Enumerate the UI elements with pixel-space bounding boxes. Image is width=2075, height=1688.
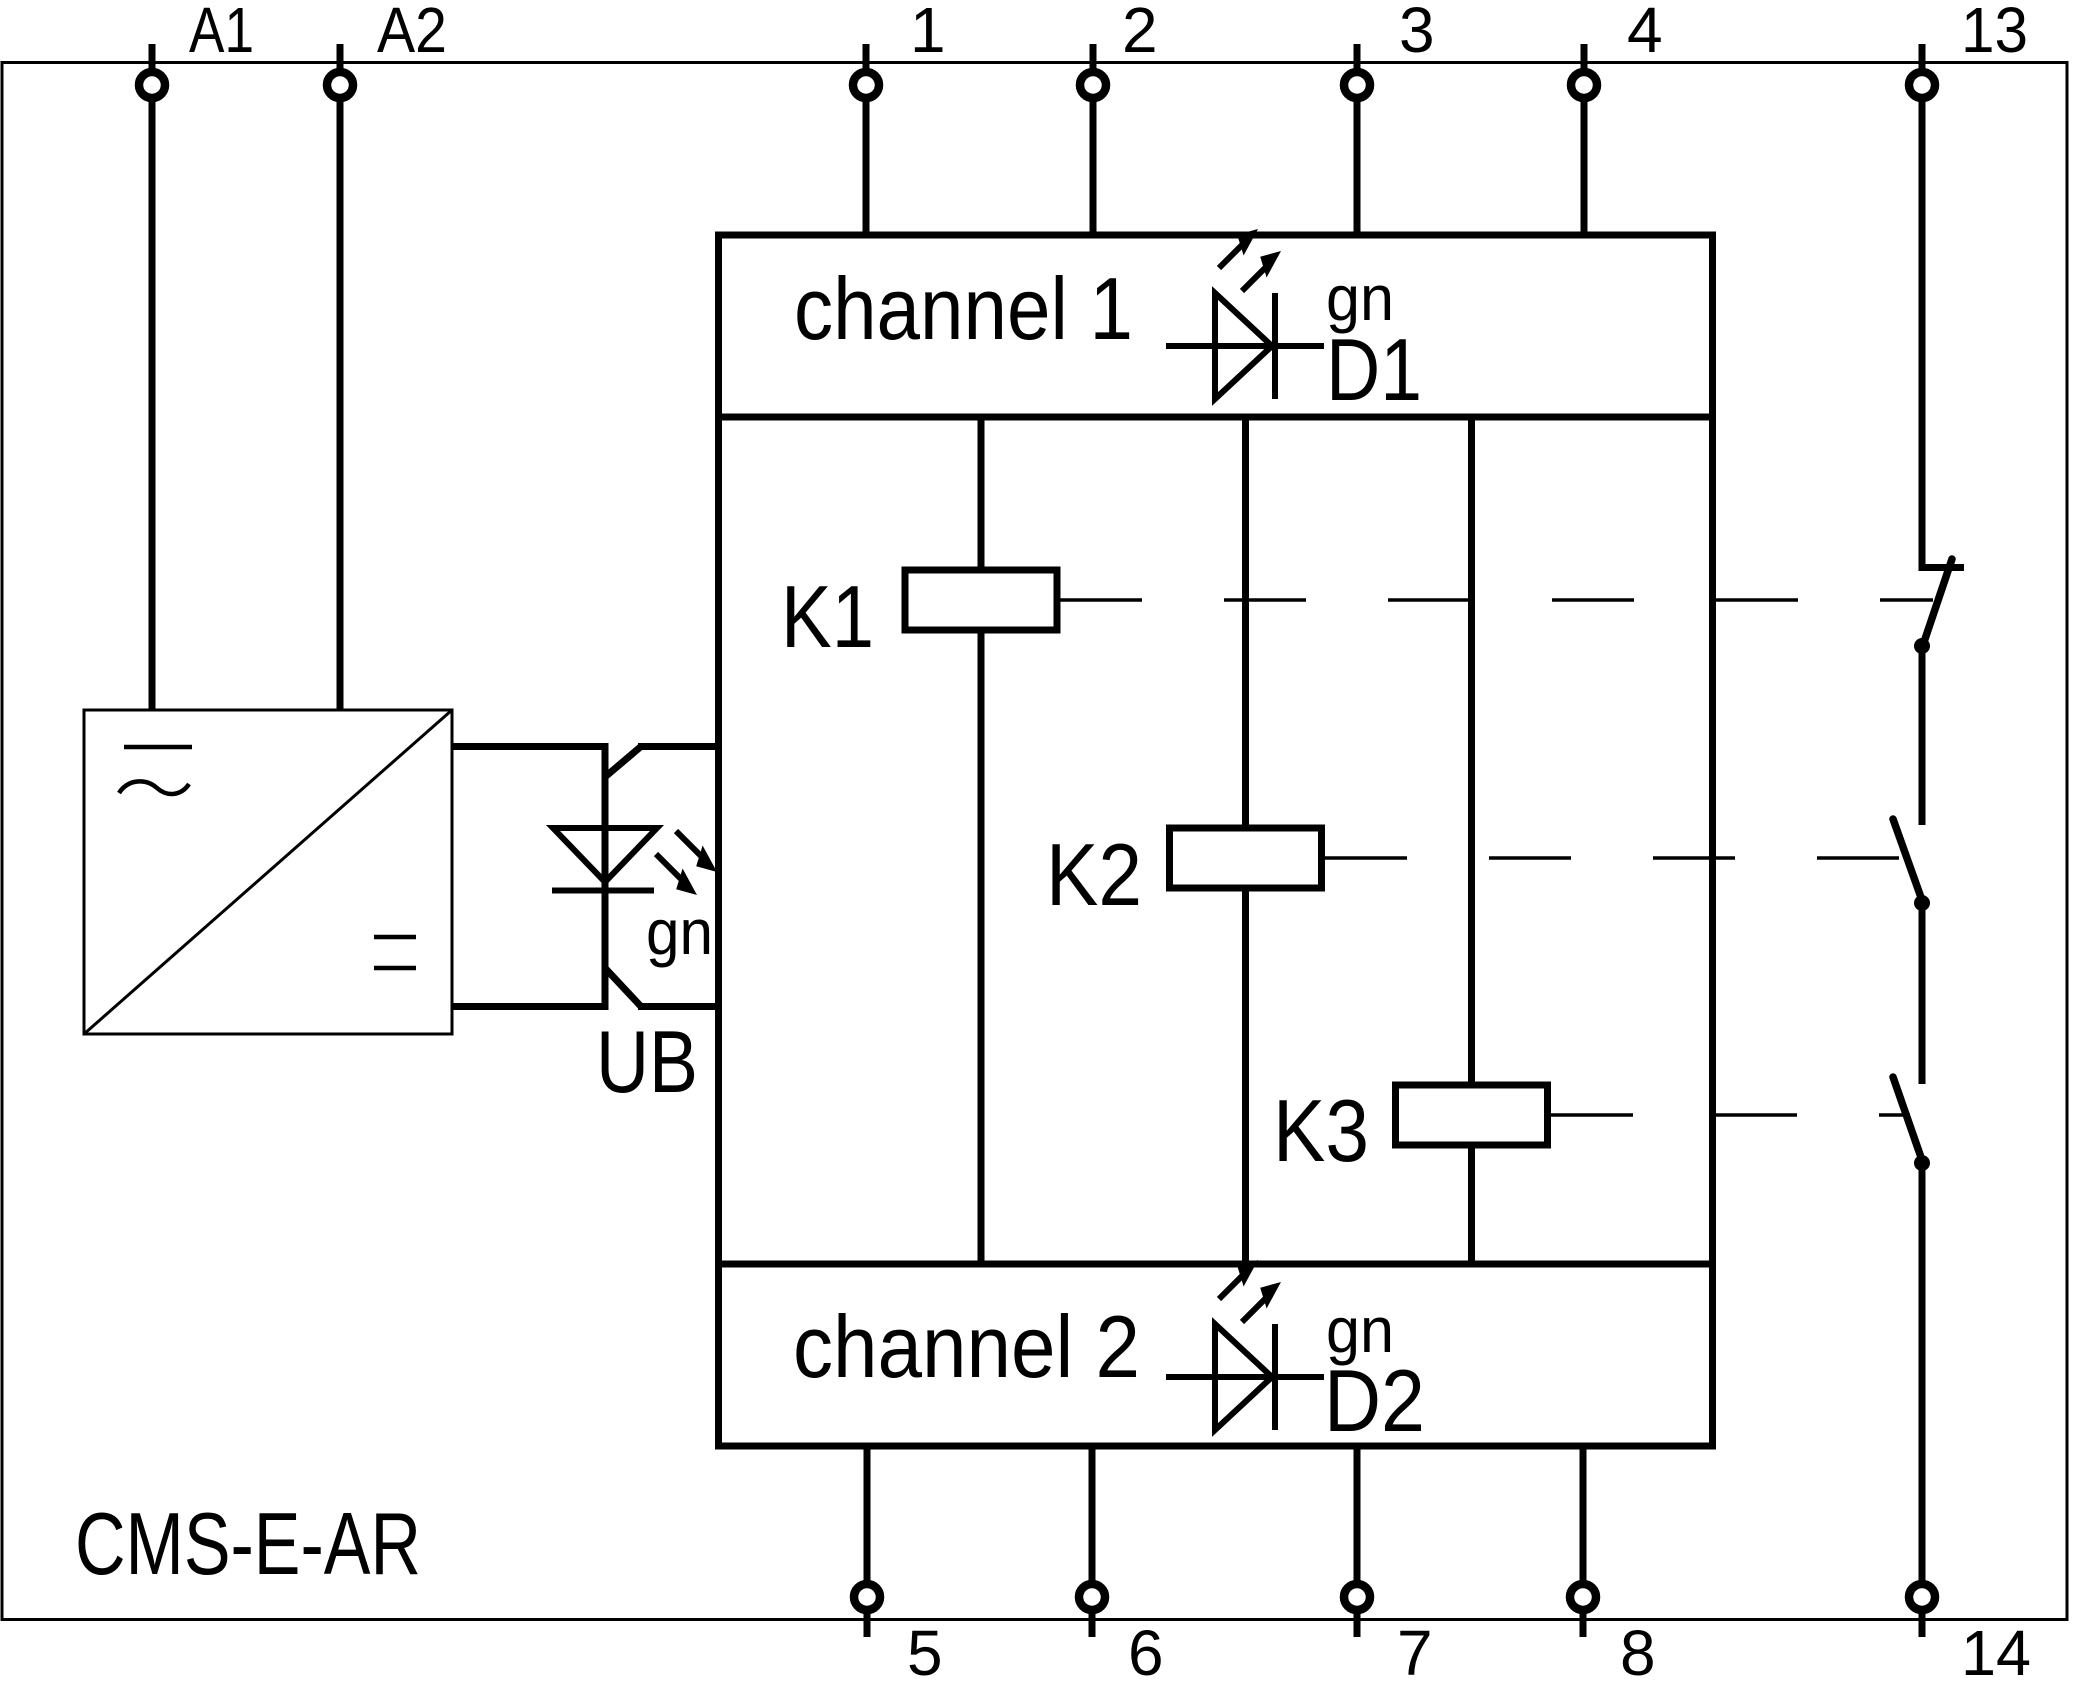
wire terminal 3 to relay block <box>1354 101 1361 236</box>
svg-text:A1: A1 <box>189 0 254 66</box>
svg-text:5: 5 <box>907 1617 943 1688</box>
wire terminal 4 to relay block <box>1581 101 1588 236</box>
svg-text:4: 4 <box>1627 0 1663 66</box>
wire jog bottom <box>605 968 641 1007</box>
terminal 8 <box>1570 1584 1596 1637</box>
wire K2 stem <box>1242 417 1249 1264</box>
terminal A2 <box>327 44 353 98</box>
svg-text:6: 6 <box>1128 1617 1164 1688</box>
LED D1 <box>1166 229 1324 399</box>
wire relay block to terminal 5 <box>864 1446 871 1581</box>
svg-text:1: 1 <box>910 0 946 66</box>
relay coil K2 <box>1170 828 1322 888</box>
relay block box <box>719 235 1713 1446</box>
mechanical link K2 (dashed) <box>1325 856 1910 860</box>
DC symbol <box>374 937 416 968</box>
wire contact2 to contact3 <box>1919 903 1926 1084</box>
terminal A1 <box>139 44 165 98</box>
svg-text:7: 7 <box>1397 1617 1433 1688</box>
wire contact1 to contact2 <box>1919 646 1926 825</box>
wire relay block to terminal 6 <box>1089 1446 1096 1581</box>
wire contact3 to terminal 14 <box>1919 1163 1926 1581</box>
channel 1 band line <box>715 414 1716 421</box>
svg-text:13: 13 <box>1961 0 2028 66</box>
wire to relay block top <box>638 743 721 750</box>
svg-text:2: 2 <box>1122 0 1158 66</box>
terminal 7 <box>1344 1584 1370 1637</box>
terminal 6 <box>1079 1584 1105 1637</box>
svg-text:channel 1: channel 1 <box>794 259 1133 358</box>
wire A2 to power supply <box>337 101 344 710</box>
svg-text:channel 2: channel 2 <box>793 1297 1140 1396</box>
wire K1 stem <box>978 417 985 1264</box>
AC symbol <box>119 747 192 794</box>
terminal 2 <box>1080 44 1106 98</box>
wire jog top <box>605 747 641 778</box>
svg-text:A2: A2 <box>377 0 447 66</box>
LED UB <box>552 828 717 895</box>
mechanical link K3 (dashed) <box>1551 1113 1910 1117</box>
svg-text:UB: UB <box>596 1012 698 1111</box>
svg-text:14: 14 <box>1961 1617 2031 1688</box>
terminal 1 <box>853 44 879 98</box>
terminal 5 <box>854 1584 880 1637</box>
mechanical link K1 (dashed) <box>1060 598 1933 602</box>
wire relay block to terminal 7 <box>1354 1446 1361 1581</box>
relay coil K1 <box>905 570 1057 630</box>
terminal 4 <box>1571 44 1597 98</box>
wire PSU top output <box>452 743 609 750</box>
wire LED branch vertical <box>602 743 609 1010</box>
svg-text:K1: K1 <box>781 567 874 666</box>
svg-text:D2: D2 <box>1324 1351 1425 1450</box>
terminal 14 <box>1909 1584 1935 1637</box>
contact 2 (NO, K2) <box>1893 819 1930 911</box>
svg-text:8: 8 <box>1620 1617 1656 1688</box>
wire terminal 1 to relay block <box>863 101 870 236</box>
svg-text:D1: D1 <box>1326 320 1422 419</box>
svg-text:K2: K2 <box>1046 825 1142 924</box>
terminal 13 <box>1909 44 1935 98</box>
LED D2 <box>1166 1260 1324 1430</box>
wire relay block to terminal 8 <box>1580 1446 1587 1581</box>
power supply unit <box>84 710 452 1034</box>
contact 3 (NO, K3) <box>1893 1077 1930 1171</box>
wire PSU bottom output <box>452 1003 609 1010</box>
wire to relay block bottom <box>638 1003 721 1010</box>
relay coil K3 <box>1396 1085 1548 1145</box>
channel 2 band line <box>715 1261 1716 1268</box>
svg-text:3: 3 <box>1399 0 1435 66</box>
wire terminal 13 to contact 1 <box>1919 101 1926 571</box>
wire A1 to power supply <box>149 101 156 710</box>
wire terminal 2 to relay block <box>1090 101 1097 236</box>
wire K3 stem <box>1468 417 1475 1264</box>
contact 1 (NO, K1) <box>1914 559 1964 654</box>
svg-text:gn: gn <box>646 896 713 968</box>
svg-text:K3: K3 <box>1273 1081 1369 1180</box>
svg-text:CMS-E-AR: CMS-E-AR <box>75 1494 421 1593</box>
terminal 3 <box>1344 44 1370 98</box>
